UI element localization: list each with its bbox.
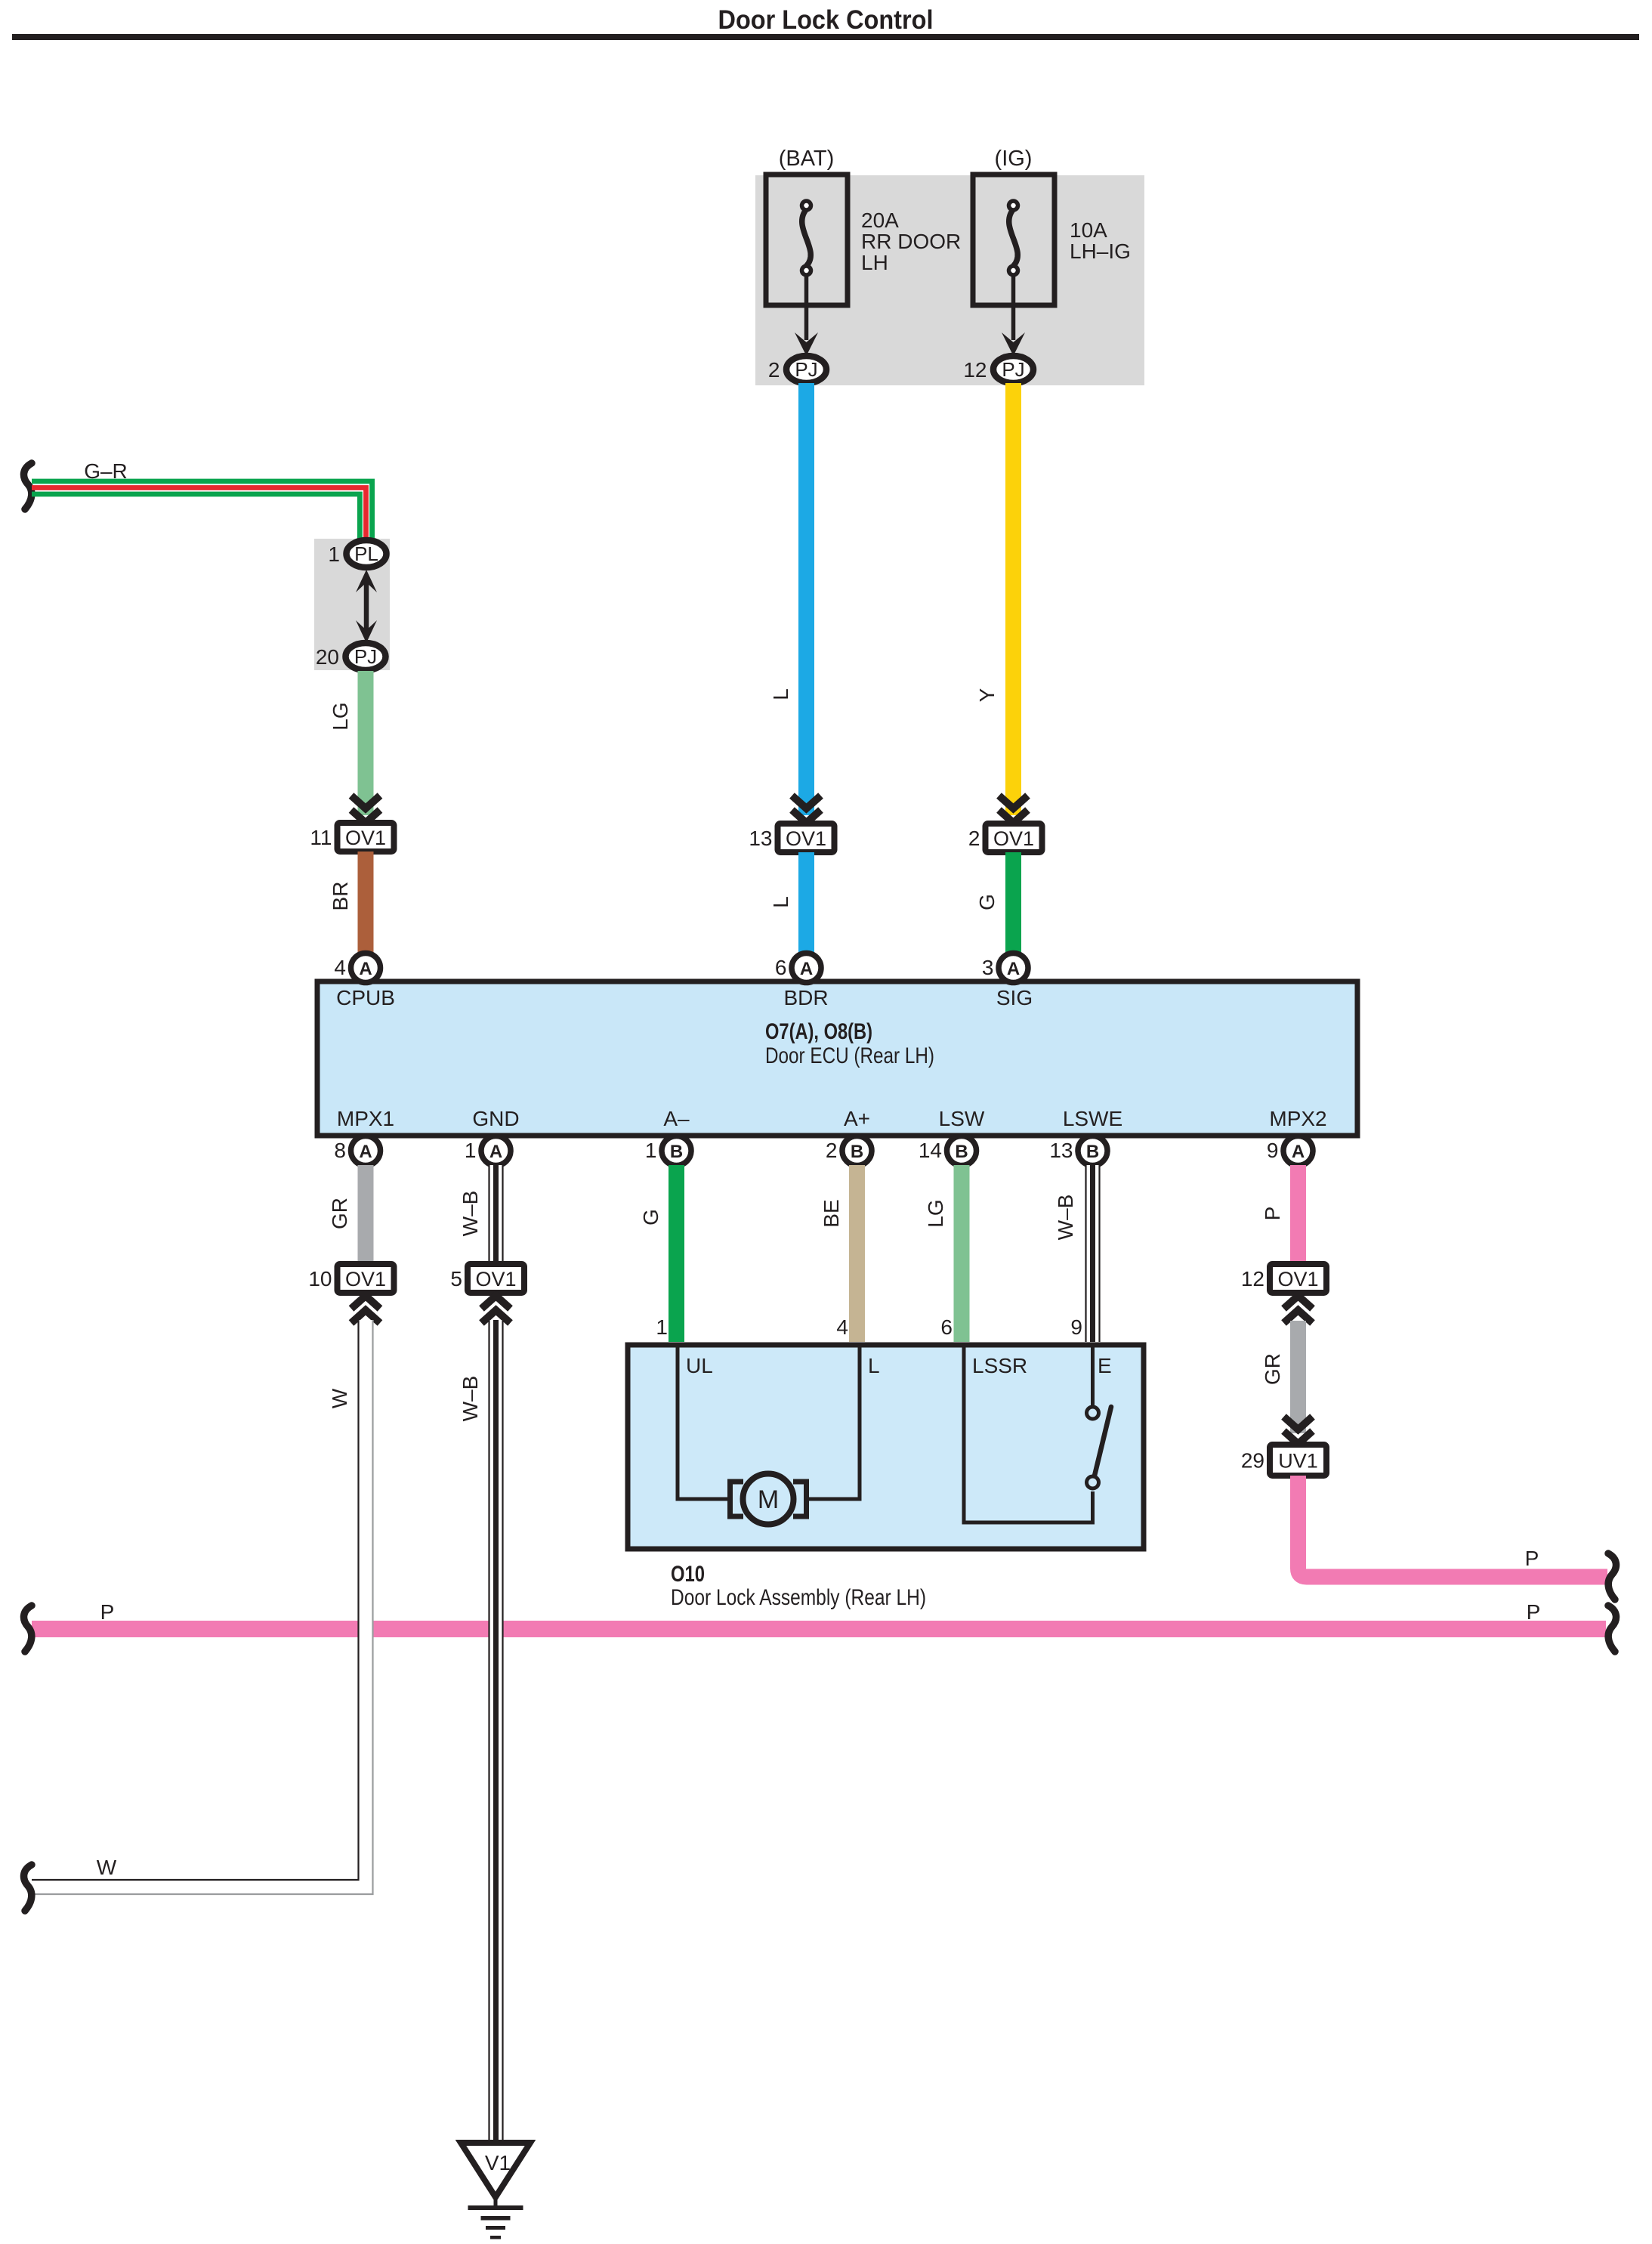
svg-text:1: 1 xyxy=(465,1139,477,1162)
svg-text:OV1: OV1 xyxy=(475,1268,516,1290)
svg-text:MPX1: MPX1 xyxy=(337,1107,394,1130)
svg-text:LH–IG: LH–IG xyxy=(1070,240,1131,263)
svg-text:SIG: SIG xyxy=(996,986,1033,1009)
svg-text:P: P xyxy=(1527,1600,1541,1624)
svg-text:Door Lock Control: Door Lock Control xyxy=(718,5,934,35)
svg-text:A: A xyxy=(359,959,372,979)
svg-text:A: A xyxy=(800,959,813,979)
svg-text:8: 8 xyxy=(334,1139,346,1162)
svg-text:LSWE: LSWE xyxy=(1063,1107,1122,1130)
svg-text:B: B xyxy=(670,1142,683,1162)
svg-text:13: 13 xyxy=(749,827,772,850)
svg-text:A: A xyxy=(1292,1142,1305,1162)
svg-text:W–B: W–B xyxy=(459,1191,482,1237)
svg-text:Door ECU (Rear LH): Door ECU (Rear LH) xyxy=(765,1043,934,1068)
svg-text:PL: PL xyxy=(354,542,378,565)
svg-text:OV1: OV1 xyxy=(345,827,386,849)
svg-text:G: G xyxy=(639,1209,662,1226)
svg-text:G: G xyxy=(975,894,999,910)
svg-text:E: E xyxy=(1098,1354,1112,1377)
svg-text:MPX2: MPX2 xyxy=(1269,1107,1326,1130)
svg-text:B: B xyxy=(955,1142,968,1162)
svg-text:LG: LG xyxy=(329,702,352,730)
svg-text:12: 12 xyxy=(963,358,987,382)
svg-text:P: P xyxy=(1525,1547,1539,1570)
svg-text:LG: LG xyxy=(924,1199,947,1227)
svg-text:14: 14 xyxy=(919,1139,942,1162)
svg-text:L: L xyxy=(769,688,792,700)
svg-text:GR: GR xyxy=(328,1198,351,1229)
svg-text:OV1: OV1 xyxy=(1277,1268,1318,1290)
svg-text:BDR: BDR xyxy=(783,986,828,1009)
svg-text:1: 1 xyxy=(645,1139,657,1162)
svg-text:L: L xyxy=(769,896,792,908)
svg-text:PJ: PJ xyxy=(354,645,377,668)
svg-text:W–B: W–B xyxy=(459,1376,482,1422)
svg-text:(IG): (IG) xyxy=(995,147,1033,171)
svg-text:LSW: LSW xyxy=(939,1107,985,1130)
svg-text:3: 3 xyxy=(982,956,994,979)
svg-text:20A: 20A xyxy=(861,209,899,232)
svg-text:B: B xyxy=(851,1142,863,1162)
svg-text:OV1: OV1 xyxy=(786,827,826,850)
svg-text:L: L xyxy=(868,1354,880,1377)
svg-text:1: 1 xyxy=(328,542,340,566)
svg-text:LH: LH xyxy=(861,251,888,274)
svg-text:2: 2 xyxy=(768,358,780,382)
svg-text:RR DOOR: RR DOOR xyxy=(861,230,961,253)
svg-text:9: 9 xyxy=(1070,1315,1082,1339)
svg-text:12: 12 xyxy=(1241,1267,1264,1290)
svg-text:6: 6 xyxy=(775,956,787,979)
svg-text:W–B: W–B xyxy=(1054,1195,1077,1241)
svg-text:UL: UL xyxy=(686,1354,713,1377)
svg-text:13: 13 xyxy=(1049,1139,1073,1162)
svg-text:Door Lock Assembly (Rear LH): Door Lock Assembly (Rear LH) xyxy=(671,1585,926,1610)
svg-text:O10: O10 xyxy=(671,1562,705,1587)
svg-text:B: B xyxy=(1086,1142,1099,1162)
svg-text:4: 4 xyxy=(836,1315,848,1339)
svg-text:W: W xyxy=(328,1388,351,1408)
svg-text:4: 4 xyxy=(334,956,346,979)
svg-text:6: 6 xyxy=(940,1315,953,1339)
svg-text:5: 5 xyxy=(450,1267,462,1290)
svg-text:A: A xyxy=(489,1142,502,1162)
svg-text:A: A xyxy=(1007,959,1020,979)
svg-text:A–: A– xyxy=(663,1107,690,1130)
svg-text:UV1: UV1 xyxy=(1278,1450,1318,1473)
svg-text:OV1: OV1 xyxy=(993,827,1034,850)
svg-text:BE: BE xyxy=(820,1199,843,1227)
svg-text:O7(A), O8(B): O7(A), O8(B) xyxy=(765,1019,872,1044)
svg-text:GND: GND xyxy=(472,1107,519,1130)
svg-text:(BAT): (BAT) xyxy=(779,147,835,171)
svg-text:PJ: PJ xyxy=(795,358,817,381)
svg-text:P: P xyxy=(100,1600,115,1624)
svg-text:20: 20 xyxy=(316,645,339,669)
svg-text:W: W xyxy=(97,1856,117,1879)
svg-text:1: 1 xyxy=(656,1315,668,1339)
svg-text:PJ: PJ xyxy=(1002,358,1024,381)
svg-text:A+: A+ xyxy=(844,1107,870,1130)
svg-text:11: 11 xyxy=(310,826,332,849)
svg-text:10: 10 xyxy=(308,1267,332,1290)
svg-text:GR: GR xyxy=(1261,1353,1284,1385)
svg-text:M: M xyxy=(758,1485,779,1514)
svg-text:Y: Y xyxy=(975,688,999,702)
svg-text:A: A xyxy=(359,1142,372,1162)
svg-text:10A: 10A xyxy=(1070,218,1107,242)
svg-text:2: 2 xyxy=(968,827,980,850)
svg-text:29: 29 xyxy=(1241,1449,1264,1473)
svg-text:2: 2 xyxy=(826,1139,838,1162)
svg-text:OV1: OV1 xyxy=(345,1268,386,1290)
svg-text:9: 9 xyxy=(1267,1139,1279,1162)
svg-text:BR: BR xyxy=(329,882,352,911)
svg-text:P: P xyxy=(1261,1207,1284,1221)
svg-text:V1: V1 xyxy=(485,2151,511,2174)
svg-text:CPUB: CPUB xyxy=(336,986,395,1009)
svg-text:LSSR: LSSR xyxy=(972,1354,1027,1377)
